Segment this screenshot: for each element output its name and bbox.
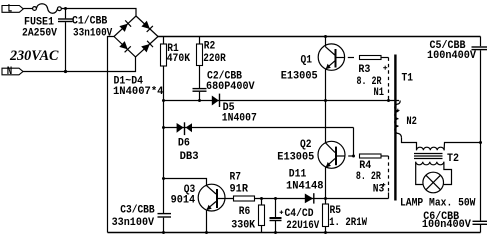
capacitor C5 (472, 46, 487, 48)
node junction C4 top (274, 197, 277, 200)
svg-text:N: N (7, 66, 13, 78)
resistor R6 (259, 205, 265, 226)
wire Q3 emitter (206, 210, 208, 233)
capacitor C3 (158, 213, 172, 215)
wire R1 branch vertical (163, 37, 165, 214)
svg-text:680P400V: 680P400V (206, 81, 255, 93)
transformer T2 primary coil (417, 147, 445, 150)
svg-text:C4/CD: C4/CD (285, 208, 314, 220)
svg-text:FUSE1: FUSE1 (24, 16, 54, 28)
wire C1 bottom lead (65, 22, 67, 71)
wire T2 secondary right to lamp (444, 162, 452, 185)
wire N terminal to bridge bottom (23, 57, 136, 72)
svg-text:Q2: Q2 (300, 139, 312, 151)
wire Q3 collector line (164, 179, 207, 186)
diode D1 top-left (119, 24, 128, 32)
svg-text:100n400V: 100n400V (422, 219, 471, 231)
svg-text:8. 2R: 8. 2R (357, 76, 382, 88)
wire L terminal to fuse (23, 8, 32, 10)
node junction midpoint Q1/Q2 (324, 99, 327, 102)
lamp (423, 172, 444, 193)
resistor R5 (323, 204, 329, 227)
node junction N1-midline (387, 99, 390, 102)
svg-text:1N4007: 1N4007 (222, 113, 257, 125)
svg-text:D6: D6 (178, 138, 190, 150)
svg-text:R3: R3 (358, 64, 370, 76)
node junction R6 top (260, 197, 263, 200)
svg-text:220R: 220R (203, 53, 226, 65)
svg-text:2A250V: 2A250V (22, 28, 57, 40)
svg-text:8. 2R: 8. 2R (356, 171, 381, 183)
transistor Q3 (198, 184, 225, 211)
wire T2 primary right to rail (444, 143, 480, 151)
svg-text:D11: D11 (289, 169, 307, 181)
node N2 plus mark (396, 109, 399, 112)
resistor R1 (161, 44, 167, 66)
capacitor C2 (193, 88, 207, 90)
capacitor C4 electrolytic (270, 217, 282, 219)
diode bridge D1~D4 (114, 16, 158, 57)
node C4 plus mark (280, 210, 284, 214)
node junction R1-midline (162, 99, 165, 102)
svg-text:33n100V: 33n100V (73, 28, 113, 40)
resistor R4 (360, 154, 382, 158)
wire R5 leads (325, 199, 327, 205)
svg-text:N1: N1 (374, 87, 385, 99)
wire N2 to T2 (402, 138, 417, 150)
core of T1 (394, 55, 396, 201)
svg-text:330K: 330K (231, 219, 255, 231)
svg-text:LAMP Max. 50W: LAMP Max. 50W (400, 198, 476, 210)
wire bridge edge bottom-left (114, 37, 136, 57)
resistor R3 (360, 56, 382, 60)
wire D6 to Q2 base (353, 128, 355, 157)
wire R6 leads (261, 199, 263, 206)
wire R3 to N1 (381, 57, 389, 59)
wire bridge edge top-left (114, 16, 136, 37)
wire fuse to bridge top (61, 9, 136, 17)
transformer T2 secondary coil (416, 162, 444, 165)
node junction Q2 base (352, 155, 355, 158)
svg-text:1N4007*4: 1N4007*4 (113, 86, 164, 98)
svg-text:22U16V: 22U16V (286, 220, 319, 232)
svg-text:470K: 470K (167, 53, 191, 65)
wire Q2 collector (325, 101, 327, 143)
svg-text:100n400V: 100n400V (427, 50, 476, 62)
wire base line R7 to N3 bottom (218, 198, 389, 200)
terminal N (2, 68, 23, 75)
resistor R7 (234, 196, 255, 201)
wire bridge left vertex to negative rail (108, 37, 115, 233)
node N1 plus mark (383, 66, 387, 70)
svg-text:R7: R7 (230, 171, 242, 183)
winding N1 of T1 (388, 58, 390, 98)
core of T2 (414, 154, 443, 159)
node N3 plus mark (382, 183, 385, 186)
svg-text:91R: 91R (230, 183, 249, 195)
node junction rail mid (479, 141, 482, 144)
svg-text:9014: 9014 (171, 194, 196, 206)
wire C4 leads (275, 199, 277, 218)
capacitor C1 (58, 18, 73, 20)
wire T2 secondary left to lamp (416, 162, 423, 185)
wire Q1 base lead (337, 57, 345, 59)
wire right rail (480, 37, 482, 47)
wire Q2 base lead (337, 155, 345, 157)
winding N3 of T1 (388, 156, 390, 194)
fuse FUSE1 (33, 7, 37, 11)
svg-text:DB3: DB3 (180, 151, 199, 163)
svg-text:T2: T2 (447, 153, 459, 165)
diode D3 bottom-left (119, 41, 128, 49)
svg-text:C3/CBB: C3/CBB (120, 204, 155, 216)
wire C1 top lead (65, 9, 67, 19)
svg-text:R2: R2 (204, 41, 216, 53)
node junction C2-midline (198, 99, 201, 102)
node junction Q3 collector (162, 177, 165, 180)
svg-text:1N4148: 1N4148 (286, 180, 324, 192)
diac D6 (177, 122, 192, 135)
wire bridge edge bottom-right (136, 37, 159, 57)
svg-text:R5: R5 (330, 205, 342, 217)
wire R2 branch vertical (199, 37, 201, 89)
svg-text:T1: T1 (402, 72, 414, 84)
node junction R5 top (324, 197, 327, 200)
svg-text:Q1: Q1 (301, 54, 313, 66)
wire D6 line (164, 127, 354, 129)
wire bridge edge top-right (136, 16, 158, 37)
diode D2 top-right (141, 21, 150, 29)
wire Q1 collector (325, 37, 327, 47)
resistor R2 (197, 44, 203, 66)
wire Q2 emitter (325, 167, 327, 199)
diode D4 bottom-right (141, 44, 150, 52)
node C1 bottom junction (64, 70, 67, 73)
wire midpoint line (164, 100, 400, 102)
wire top DC+ rail (158, 36, 481, 38)
diode D11 (305, 194, 313, 204)
svg-text:R6: R6 (239, 206, 251, 218)
diode D5 (212, 96, 219, 106)
capacitor C6 (473, 220, 487, 222)
wire bottom rail (108, 232, 481, 234)
svg-text:E13005: E13005 (277, 151, 314, 163)
terminal L (2, 6, 23, 13)
winding N2 of T1 (395, 101, 402, 138)
svg-text:230VAC: 230VAC (9, 48, 59, 64)
svg-text:L: L (8, 3, 13, 15)
node C1 top junction (64, 7, 67, 10)
transistor Q2 (318, 141, 345, 168)
wire Q1 emitter (325, 69, 327, 101)
node junction D6 left (162, 126, 165, 129)
transistor Q1 (318, 44, 344, 70)
wire R4 to N3 (381, 155, 389, 157)
svg-text:33n100V: 33n100V (112, 217, 155, 229)
svg-text:1. 2R1W: 1. 2R1W (329, 217, 367, 229)
svg-text:N2: N2 (406, 116, 417, 128)
svg-text:C1/CBB: C1/CBB (72, 16, 108, 28)
svg-text:E13005: E13005 (281, 71, 318, 83)
